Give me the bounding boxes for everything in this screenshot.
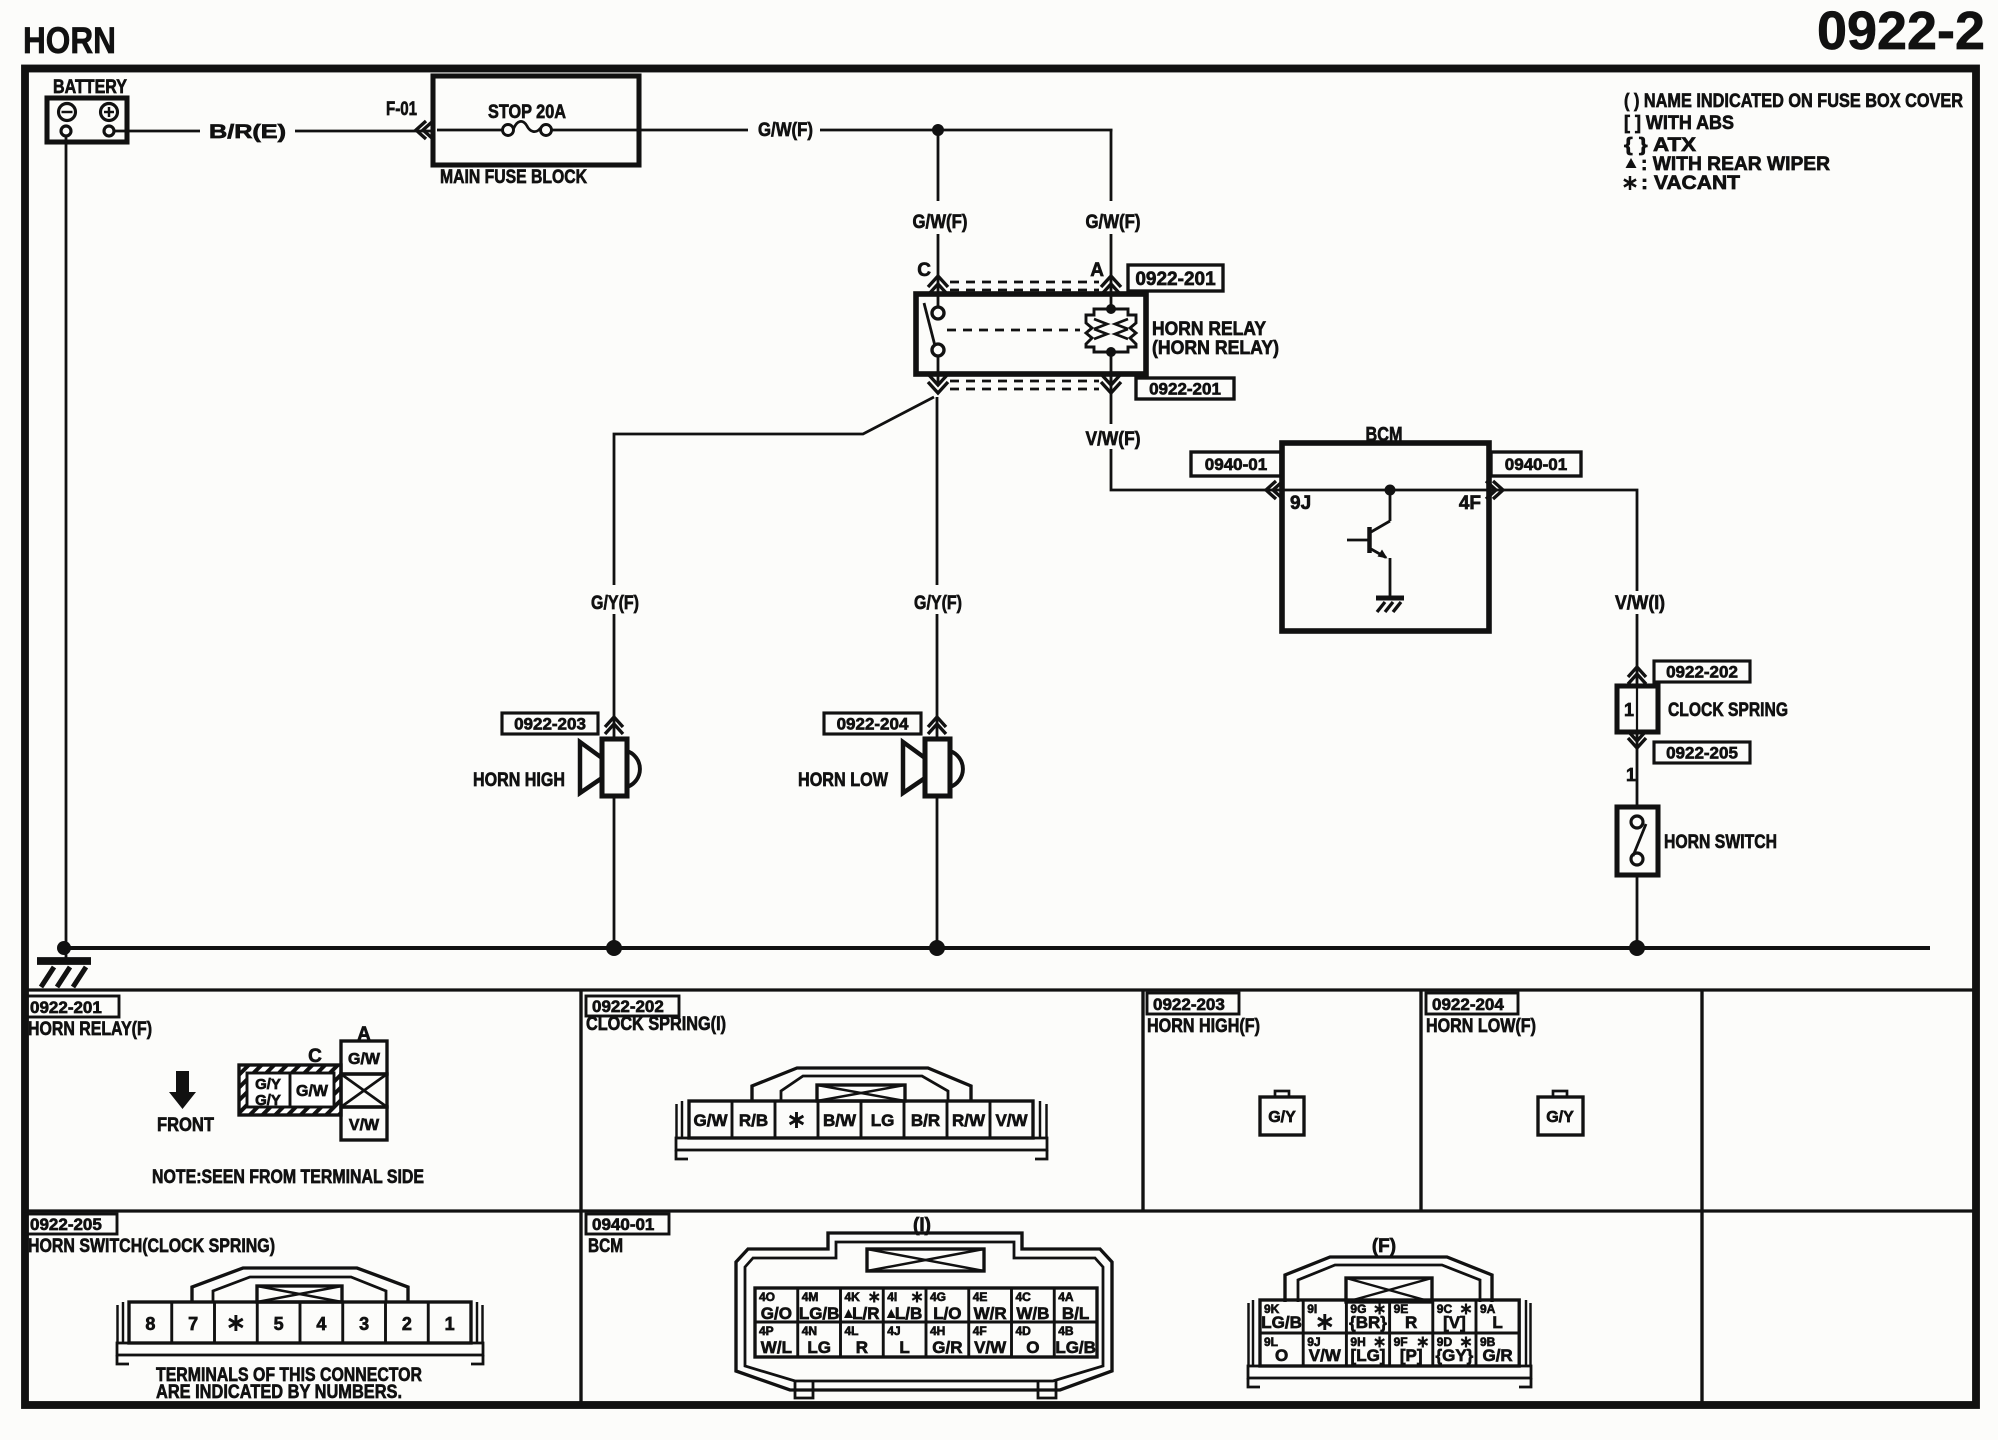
svg-text:R/B: R/B	[739, 1111, 768, 1130]
svg-text:FRONT: FRONT	[157, 1115, 214, 1136]
wire horn high to ground	[613, 796, 616, 945]
svg-text:V/W(I): V/W(I)	[1615, 593, 1665, 614]
svg-text:L/O: L/O	[933, 1304, 961, 1323]
panel 0922-202 header	[586, 996, 679, 1016]
svg-text:B/R(E): B/R(E)	[209, 122, 286, 143]
svg-text:BATTERY: BATTERY	[53, 77, 127, 98]
svg-text:STOP 20A: STOP 20A	[488, 102, 566, 123]
svg-text:G/W: G/W	[296, 1083, 329, 1100]
svg-text:HORN SWITCH: HORN SWITCH	[1664, 832, 1777, 853]
relay coil	[1086, 294, 1136, 374]
svg-text:G/R: G/R	[1482, 1346, 1512, 1365]
svg-text:9J: 9J	[1290, 493, 1311, 514]
svg-text:4P: 4P	[759, 1324, 774, 1338]
svg-text:5: 5	[274, 1314, 284, 1334]
svg-text:L: L	[1492, 1313, 1502, 1332]
svg-text:ARE INDICATED BY NUMBERS.: ARE INDICATED BY NUMBERS.	[156, 1382, 402, 1403]
svg-text:0922-205: 0922-205	[1666, 744, 1738, 763]
wire battery minus to ground bus	[65, 136, 68, 945]
svg-text:G/W(F): G/W(F)	[913, 212, 968, 233]
svg-text:G/W(F): G/W(F)	[1086, 212, 1141, 233]
panel 0922-203 header	[1147, 993, 1239, 1014]
svg-text:7: 7	[188, 1314, 198, 1334]
svg-text:4O: 4O	[759, 1290, 775, 1304]
svg-text:0922-203: 0922-203	[514, 715, 586, 734]
ground bus	[62, 946, 1930, 950]
svg-text:CLOCK SPRING: CLOCK SPRING	[1668, 700, 1788, 721]
svg-text:0922-203: 0922-203	[1153, 995, 1225, 1014]
svg-text:L/R: L/R	[852, 1304, 879, 1323]
svg-text:LG: LG	[807, 1338, 831, 1357]
wire G/W(F) fuse to relay	[639, 129, 748, 132]
svg-text:G/W: G/W	[348, 1051, 381, 1068]
svg-text:W/B: W/B	[1016, 1304, 1049, 1323]
svg-text:0922-201: 0922-201	[1149, 380, 1221, 399]
svg-text:C: C	[308, 1046, 322, 1067]
svg-text:(F): (F)	[1372, 1236, 1396, 1257]
svg-text:L: L	[899, 1338, 909, 1357]
svg-text:{BR}: {BR}	[1349, 1313, 1387, 1332]
label 0922-203 diagram	[502, 713, 598, 734]
svg-text:4F: 4F	[1459, 493, 1481, 514]
svg-text:1: 1	[1626, 765, 1636, 785]
svg-text:HORN SWITCH(CLOCK SPRING): HORN SWITCH(CLOCK SPRING)	[28, 1236, 275, 1257]
svg-text:B/L: B/L	[1062, 1304, 1089, 1323]
wire G/W(F) branch C	[937, 130, 940, 201]
clock spring connector	[676, 1068, 1047, 1159]
svg-text:4: 4	[316, 1314, 326, 1334]
relay switch	[924, 303, 944, 356]
svg-text:C: C	[917, 260, 931, 281]
svg-text:[ ] WITH ABS: [ ] WITH ABS	[1624, 113, 1734, 134]
svg-text:LG: LG	[871, 1111, 895, 1130]
svg-text:8: 8	[145, 1314, 155, 1334]
horn low connector G/Y	[1538, 1091, 1583, 1135]
label 0922-204 diagram	[824, 713, 921, 734]
svg-text:BCM: BCM	[588, 1236, 623, 1257]
svg-text:NOTE:SEEN FROM TERMINAL SIDE: NOTE:SEEN FROM TERMINAL SIDE	[152, 1167, 424, 1188]
legend	[1624, 91, 1963, 194]
svg-text:[V]: [V]	[1443, 1313, 1466, 1332]
wire V/W(F) relay to BCM	[1110, 374, 1113, 424]
svg-text:HORN RELAY: HORN RELAY	[1152, 319, 1266, 340]
svg-text:G/W(F): G/W(F)	[758, 120, 813, 141]
svg-text:F-01: F-01	[386, 99, 417, 120]
svg-text:4I: 4I	[887, 1290, 897, 1304]
connector 0922-202	[1628, 667, 1646, 677]
svg-text:HORN: HORN	[23, 20, 116, 61]
svg-text:4G: 4G	[930, 1290, 946, 1304]
relay connector A column	[341, 1024, 387, 1140]
svg-text:G/Y: G/Y	[255, 1076, 281, 1093]
main fuse block	[433, 76, 639, 188]
svg-text:4K: 4K	[845, 1290, 861, 1304]
svg-text:0922-201: 0922-201	[30, 998, 102, 1017]
svg-text:G/Y: G/Y	[1546, 1109, 1574, 1126]
horn relay box	[916, 294, 1146, 374]
horn high connector G/Y	[1260, 1091, 1304, 1135]
connector 0940-01 left	[1266, 481, 1276, 499]
svg-text:4F: 4F	[973, 1324, 987, 1338]
relay connector C	[239, 1046, 341, 1115]
clock spring	[1617, 686, 1658, 732]
svg-text:4E: 4E	[973, 1290, 988, 1304]
wire G/W(F) branch A	[1110, 130, 1113, 201]
wire V/W(I) BCM to clock spring	[1489, 490, 1637, 591]
svg-text:0922-2: 0922-2	[1817, 1, 1985, 61]
svg-text:4A: 4A	[1058, 1290, 1074, 1304]
svg-text:G/Y: G/Y	[255, 1092, 281, 1109]
connector 0922-205	[1628, 738, 1646, 748]
svg-text:G/R: G/R	[932, 1338, 962, 1357]
svg-text:O: O	[1026, 1338, 1039, 1357]
label 0922-201 top	[1128, 265, 1223, 291]
svg-text:HORN LOW: HORN LOW	[798, 770, 888, 791]
svg-text:4M: 4M	[802, 1290, 819, 1304]
BCM connector F	[1248, 1236, 1531, 1387]
svg-text:W/R: W/R	[974, 1304, 1007, 1323]
svg-text:HORN HIGH(F): HORN HIGH(F)	[1147, 1016, 1260, 1037]
junction	[932, 124, 944, 136]
BCM box	[1282, 443, 1489, 631]
connector 0940-01 right	[1493, 481, 1503, 499]
wire G/Y(F) to horn high	[614, 397, 934, 585]
connector 0922-201 top dashed	[950, 281, 1099, 284]
junction horn low	[929, 940, 945, 956]
relay dashed link	[947, 329, 1080, 332]
svg-text:0922-204: 0922-204	[1432, 995, 1504, 1014]
svg-text:HORN HIGH: HORN HIGH	[473, 770, 565, 791]
svg-text:0922-205: 0922-205	[30, 1215, 102, 1234]
svg-text:V/W: V/W	[1309, 1346, 1342, 1365]
wire horn low to ground	[936, 796, 939, 945]
svg-text:HORN LOW(F): HORN LOW(F)	[1426, 1016, 1536, 1037]
svg-text:0940-01: 0940-01	[1505, 455, 1567, 474]
front arrow	[157, 1071, 214, 1136]
svg-text:(HORN RELAY): (HORN RELAY)	[1152, 338, 1279, 359]
BCM connector I	[736, 1215, 1112, 1398]
wire B/R(E) battery to fuse block	[114, 130, 200, 133]
svg-text:( ) NAME INDICATED ON FUSE BOX: ( ) NAME INDICATED ON FUSE BOX COVER	[1624, 91, 1963, 112]
svg-text:0922-202: 0922-202	[1666, 663, 1738, 682]
label 0922-201 bottom	[1136, 378, 1234, 399]
svg-text:A: A	[1090, 260, 1104, 281]
svg-text:0922-204: 0922-204	[837, 715, 909, 734]
svg-text:2: 2	[402, 1314, 412, 1334]
svg-text:LG/B: LG/B	[1055, 1338, 1096, 1357]
svg-text:V/W: V/W	[974, 1338, 1007, 1357]
svg-text:4H: 4H	[930, 1324, 945, 1338]
svg-text:4B: 4B	[1058, 1324, 1074, 1338]
svg-text:BCM: BCM	[1366, 424, 1403, 446]
svg-text:[LG]: [LG]	[1351, 1346, 1386, 1365]
svg-text:[P]: [P]	[1400, 1346, 1423, 1365]
svg-text:3: 3	[359, 1314, 369, 1334]
horn switch	[1617, 807, 1658, 875]
svg-text:HORN RELAY(F): HORN RELAY(F)	[28, 1019, 152, 1040]
svg-text:R: R	[856, 1338, 868, 1357]
horn switch connector	[117, 1268, 483, 1364]
panel 0922-205 header	[24, 1214, 117, 1234]
svg-text:CLOCK SPRING(I): CLOCK SPRING(I)	[586, 1014, 726, 1035]
BCM internal wire 9J-4F	[1282, 489, 1489, 492]
transistor	[1347, 495, 1390, 597]
svg-text:0940-01: 0940-01	[1205, 455, 1267, 474]
svg-text:LG/B: LG/B	[1261, 1313, 1302, 1332]
svg-text:0940-01: 0940-01	[592, 1215, 654, 1234]
junction battery	[57, 941, 71, 955]
svg-text:G/O: G/O	[761, 1304, 792, 1323]
svg-text:{GY}: {GY}	[1436, 1346, 1474, 1365]
panel 0940-01 header	[586, 1214, 669, 1234]
horn low	[903, 739, 963, 796]
svg-text:: VACANT: : VACANT	[1641, 173, 1740, 194]
svg-text:MAIN FUSE BLOCK: MAIN FUSE BLOCK	[440, 167, 587, 188]
svg-text:G/W: G/W	[694, 1111, 729, 1130]
svg-text:G/Y(F): G/Y(F)	[914, 593, 962, 614]
svg-text:B/W: B/W	[823, 1111, 857, 1130]
svg-text:B/R: B/R	[911, 1111, 940, 1130]
svg-text:G/Y: G/Y	[1268, 1109, 1296, 1126]
svg-text:V/W: V/W	[995, 1111, 1028, 1130]
wire horn switch to ground	[1636, 875, 1639, 945]
svg-text:G/Y(F): G/Y(F)	[591, 593, 639, 614]
svg-text:1: 1	[445, 1314, 455, 1334]
svg-text:4L: 4L	[845, 1324, 859, 1338]
svg-text:R: R	[1405, 1313, 1417, 1332]
svg-text:L/B: L/B	[895, 1304, 922, 1323]
svg-text:4N: 4N	[802, 1324, 817, 1338]
svg-text:: WITH REAR WIPER: : WITH REAR WIPER	[1641, 154, 1830, 175]
panel 0922-204 header	[1426, 993, 1518, 1014]
svg-text:4J: 4J	[887, 1324, 900, 1338]
svg-text:{ } ATX: { } ATX	[1624, 135, 1696, 156]
svg-text:1: 1	[1624, 700, 1634, 720]
svg-text:LG/B: LG/B	[799, 1304, 840, 1323]
svg-text:0922-201: 0922-201	[1135, 269, 1216, 290]
wire G/Y(F) to horn low	[936, 397, 939, 585]
svg-text:4C: 4C	[1016, 1290, 1032, 1304]
BCM internal ground	[1376, 598, 1404, 612]
horn high	[580, 739, 640, 796]
svg-text:V/W(F): V/W(F)	[1086, 429, 1141, 450]
ground	[37, 948, 91, 987]
junction horn switch	[1629, 940, 1645, 956]
svg-text:9I: 9I	[1307, 1302, 1317, 1316]
svg-text:O: O	[1275, 1346, 1288, 1365]
junction horn high	[606, 940, 622, 956]
svg-text:4D: 4D	[1016, 1324, 1032, 1338]
svg-text:R/W: R/W	[952, 1111, 986, 1130]
svg-text:W/L: W/L	[761, 1338, 792, 1357]
connector 0922-201 bottom dashed	[950, 380, 1099, 383]
svg-text:V/W: V/W	[349, 1117, 380, 1134]
relay pin stubs	[937, 356, 940, 384]
battery	[47, 77, 127, 142]
panel 0922-201 header	[24, 996, 119, 1017]
panel grid	[28, 990, 1973, 1402]
